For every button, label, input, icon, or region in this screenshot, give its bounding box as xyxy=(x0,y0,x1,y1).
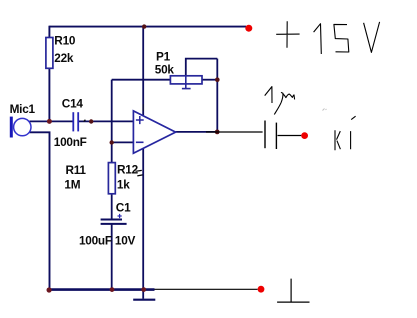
junction node - input xyxy=(110,140,114,144)
svg-text:R12: R12 xyxy=(117,162,139,176)
wire hand-drawn output to coupling cap xyxy=(206,131,263,133)
wire op-amp positive supply pin xyxy=(142,27,144,116)
node red dot ground rail end xyxy=(258,286,265,293)
wire P1 right terminal xyxy=(202,79,217,81)
junction node top rail supply pin xyxy=(142,24,146,28)
wire op-amp - input xyxy=(112,141,134,143)
capacitor output coupling 1u right plate xyxy=(275,123,277,149)
svg-text:C14: C14 xyxy=(62,97,84,111)
svg-text:100uF: 100uF xyxy=(79,234,112,248)
wire mic bottom terminal to ground rail xyxy=(30,132,50,289)
junction node output xyxy=(215,130,220,135)
junction node P1 right xyxy=(215,77,220,82)
wire ground rail bottom xyxy=(49,288,155,291)
label handwritten +15V xyxy=(276,21,299,48)
resistor R12 xyxy=(108,163,115,194)
junction node C14 right xyxy=(89,119,93,123)
capacitor output coupling 1u left plate xyxy=(264,121,266,149)
label handwritten Ki xyxy=(335,130,340,150)
wire feedback right vertical to output xyxy=(216,59,218,132)
microphone Mic1 xyxy=(10,117,13,138)
scribble marks near R12 xyxy=(136,170,143,176)
wire P1 wiper up xyxy=(186,59,218,76)
node red dot Ki output xyxy=(301,132,308,139)
capacitor C14 xyxy=(72,112,74,131)
junction node ground rail supply xyxy=(141,287,146,292)
svg-text:P1: P1 xyxy=(156,49,171,63)
capacitor C1 electrolytic xyxy=(101,219,122,221)
svg-text:50k: 50k xyxy=(155,62,175,76)
wire hand-drawn cap to Ki node xyxy=(278,135,302,137)
node red dot +15V rail end xyxy=(245,25,252,32)
wire R12 bottom lead to C1 xyxy=(111,194,113,220)
svg-text:C1: C1 xyxy=(116,201,131,215)
wire C1 bottom lead xyxy=(111,224,113,290)
wire C14 right to op-amp + input xyxy=(79,120,133,122)
wire R12 top lead xyxy=(111,142,113,162)
svg-text:1k: 1k xyxy=(117,177,130,191)
svg-text:Mic1: Mic1 xyxy=(10,102,36,116)
svg-text:22k: 22k xyxy=(54,51,74,65)
wire output from op-amp xyxy=(176,131,218,133)
label handwritten 1u value xyxy=(265,87,272,103)
junction node ground rail left xyxy=(47,287,52,292)
wire hand-drawn ground rail extension xyxy=(155,288,258,290)
svg-text:1M: 1M xyxy=(64,178,80,192)
resistor R10 xyxy=(46,38,53,69)
wire R10 top lead xyxy=(48,26,50,38)
svg-text:R11: R11 xyxy=(66,163,87,177)
potentiometer P1 xyxy=(170,76,202,84)
svg-text:10V: 10V xyxy=(115,234,136,248)
wire op-amp negative supply pin to ground xyxy=(142,147,144,299)
ground hand-drawn bottom right xyxy=(277,279,309,303)
wire R10 bottom lead xyxy=(48,68,50,121)
junction node ground rail C1 xyxy=(110,287,115,292)
svg-text:100nF: 100nF xyxy=(54,135,87,149)
junction node R10/mic/C14 xyxy=(47,119,52,124)
ground symbol schematic xyxy=(133,299,155,301)
wire top +15V rail xyxy=(49,26,246,28)
svg-text:R10: R10 xyxy=(54,34,76,48)
tick mark near C14 xyxy=(84,120,86,122)
wire mic top terminal xyxy=(30,120,50,122)
op-amp U1 xyxy=(133,111,175,153)
wire C14 left xyxy=(49,120,72,122)
wire feedback left vertical xyxy=(111,80,113,143)
wire feedback top horizontal to P1 xyxy=(112,79,171,81)
dark overlay segment on supply pin xyxy=(142,104,144,111)
